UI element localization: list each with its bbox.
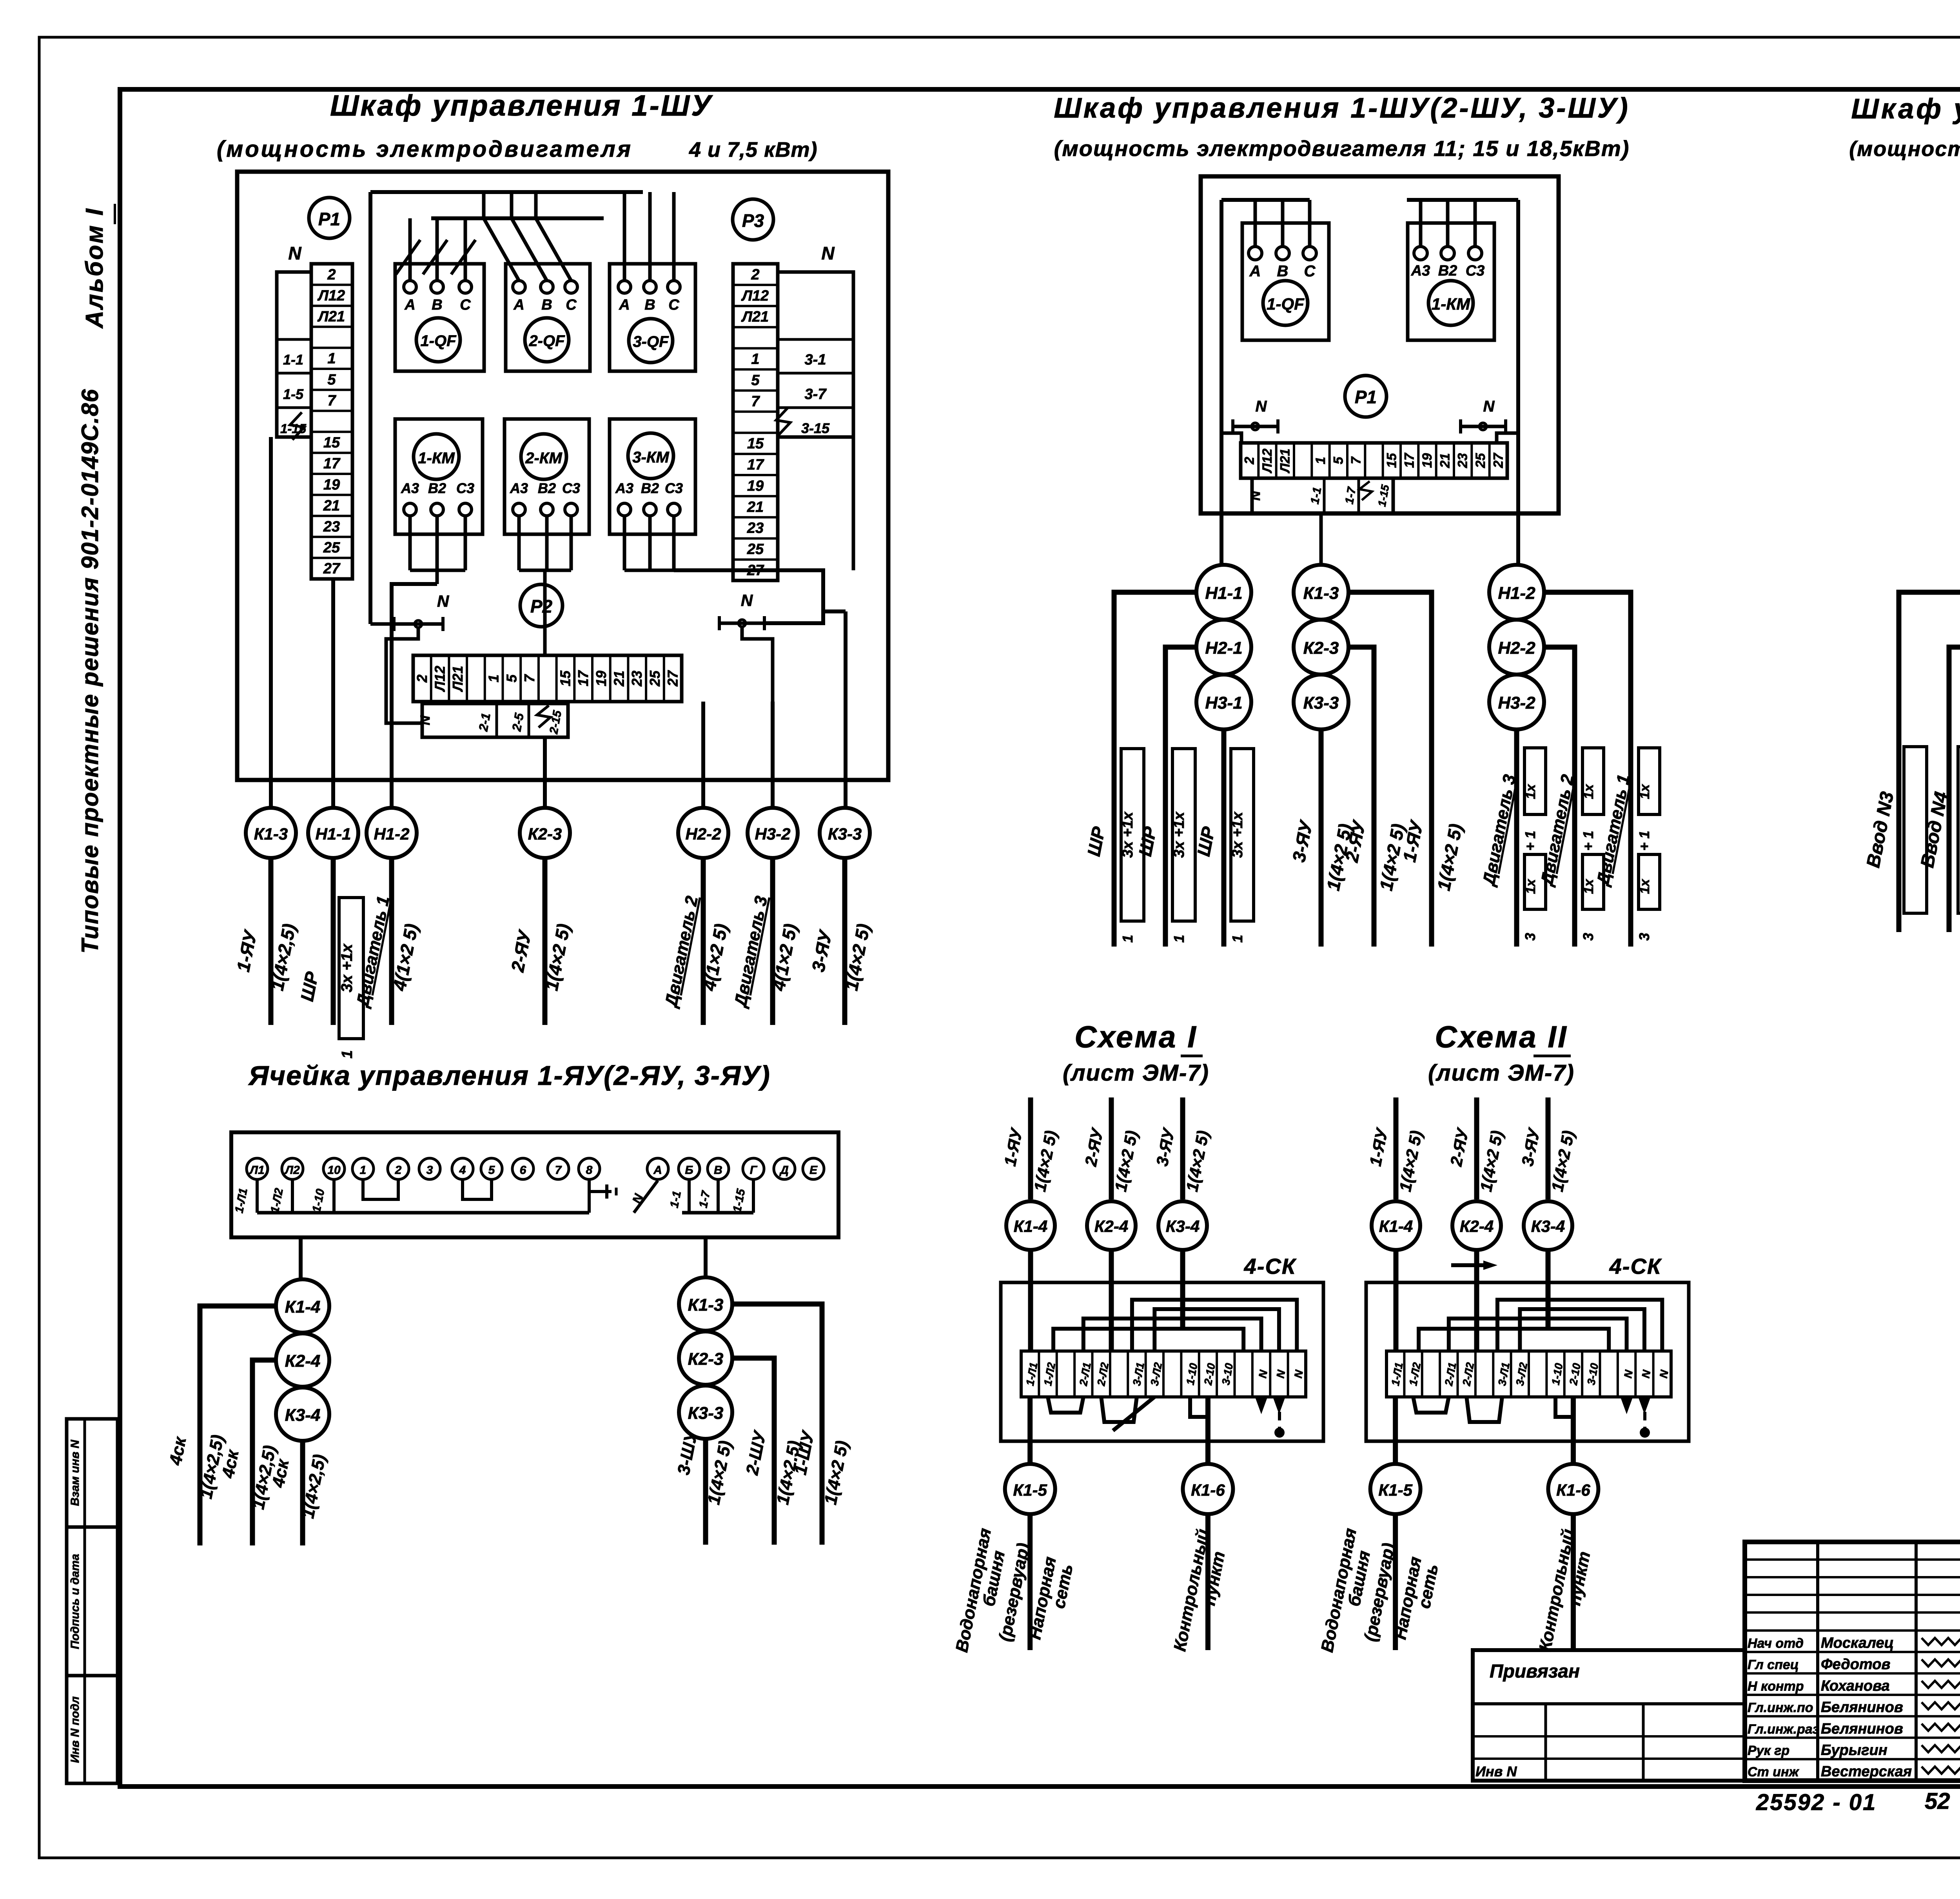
svg-text:Белянинов: Белянинов <box>1821 1721 1903 1737</box>
svg-text:2-КМ: 2-КМ <box>525 450 563 467</box>
cable К2-3 cell <box>679 1331 732 1385</box>
svg-text:Ст инж: Ст инж <box>1748 1765 1800 1779</box>
svg-text:А: А <box>513 297 524 313</box>
svg-text:2: 2 <box>751 267 759 283</box>
cable К1-6 <box>1548 1464 1598 1514</box>
cabinet 1-ШУ enclosure <box>237 172 888 780</box>
svg-text:Р2: Р2 <box>530 596 553 617</box>
chain wires section 2 right group <box>1544 592 1631 947</box>
svg-text:17: 17 <box>1402 452 1417 468</box>
outgoing tails <box>1027 1514 1033 1650</box>
incoming wires <box>1028 1097 1033 1199</box>
cable tails of cabinet 1 <box>269 858 274 1025</box>
svg-text:К1-3: К1-3 <box>688 1295 724 1315</box>
svg-text:1: 1 <box>327 350 336 367</box>
svg-text:К3-3: К3-3 <box>1303 693 1339 713</box>
svg-text:В2: В2 <box>641 480 659 496</box>
svg-text:4-СК: 4-СК <box>1609 1254 1662 1279</box>
contactor 1-КМ box <box>395 419 483 534</box>
terminal Е <box>803 1158 824 1179</box>
svg-text:Н3-2: Н3-2 <box>1498 693 1535 713</box>
svg-text:27: 27 <box>665 670 681 687</box>
cable К1-3 cell <box>679 1277 732 1331</box>
svg-text:1х: 1х <box>1523 784 1538 799</box>
svg-text:3х +1х: 3х +1х <box>1171 811 1187 858</box>
svg-text:Гл.инж.раз: Гл.инж.раз <box>1748 1722 1819 1737</box>
svg-text:Ячейка управления 1-ЯУ(2-ЯУ,: Ячейка управления 1-ЯУ(2-ЯУ, 3-ЯУ) <box>248 1060 770 1091</box>
sub terminal box N 1-1 1-7 1-15 <box>1252 478 1393 513</box>
svg-text:Н2-2: Н2-2 <box>685 825 721 843</box>
svg-text:5: 5 <box>327 372 336 388</box>
svg-text:21: 21 <box>611 671 627 687</box>
svg-text:В: В <box>1277 263 1289 280</box>
arrow mark <box>1451 1263 1483 1267</box>
svg-text:К3-4: К3-4 <box>1166 1217 1200 1235</box>
svg-text:(лист ЭМ-7): (лист ЭМ-7) <box>1428 1060 1575 1086</box>
links under strip <box>1413 1397 1449 1413</box>
svg-text:4-СК: 4-СК <box>1244 1254 1297 1279</box>
junction box 4-СК <box>1001 1282 1323 1441</box>
wire from К2-4 into nest <box>1109 1250 1114 1351</box>
title block columns left <box>1816 1542 1819 1781</box>
svg-text:Типовые проектные решения 9: Типовые проектные решения 901-2-0149С.86 <box>77 388 103 954</box>
wire from К3-4 into nest <box>1546 1250 1551 1329</box>
terminal strip of 4-СК <box>1387 1351 1671 1397</box>
svg-text:Схема I: Схема I <box>1074 1019 1198 1054</box>
cabinet 1 exit wires <box>269 437 273 808</box>
svg-text:Схема II: Схема II <box>1435 1019 1568 1054</box>
cable К1-3 <box>246 808 296 858</box>
svg-text:17: 17 <box>323 455 341 472</box>
svg-text:1: 1 <box>1171 935 1187 943</box>
svg-text:N: N <box>288 243 301 263</box>
incoming bus wires <box>1220 200 1223 565</box>
svg-text:Шкаф управления 1-ШУ(2-ШУ, 3-Ш: Шкаф управления 1-ШУ(2-ШУ, 3-ШУ) <box>1054 93 1630 124</box>
svg-text:Н3-1: Н3-1 <box>1205 693 1242 713</box>
svg-text:Л12: Л12 <box>317 287 345 304</box>
svg-text:3-КМ: 3-КМ <box>632 449 670 466</box>
svg-text:3-15: 3-15 <box>801 420 830 436</box>
svg-text:3-QF: 3-QF <box>633 333 669 350</box>
title block outer <box>1745 1542 1960 1781</box>
svg-text:К2-3: К2-3 <box>688 1349 724 1369</box>
wire from К2-4 into nest <box>1474 1250 1479 1351</box>
terminal А <box>647 1158 668 1179</box>
relay Р1 <box>1345 375 1387 417</box>
left terminal strip of cabinet 1 <box>311 264 352 579</box>
cable Н3-2 <box>748 808 798 858</box>
svg-text:1-QF: 1-QF <box>1267 295 1305 314</box>
svg-text:15: 15 <box>747 435 764 452</box>
cable Н2-2 <box>678 808 728 858</box>
cable К1-4 <box>1006 1201 1055 1250</box>
svg-text:Л21: Л21 <box>741 309 769 325</box>
terminal В <box>708 1158 729 1179</box>
svg-text:Н контр: Н контр <box>1748 1679 1804 1694</box>
arrow terminals N <box>1621 1397 1633 1414</box>
cell enclosure <box>231 1132 838 1237</box>
svg-text:1: 1 <box>1120 935 1136 943</box>
terminal Д <box>774 1158 795 1179</box>
svg-text:Н2-2: Н2-2 <box>1498 638 1535 658</box>
svg-text:К1-5: К1-5 <box>1013 1481 1047 1499</box>
svg-text:Р1: Р1 <box>318 209 340 229</box>
squiggle demount mark on 2-15 <box>537 706 550 727</box>
svg-text:Л1: Л1 <box>249 1164 264 1177</box>
terminal 7 <box>548 1158 569 1179</box>
wire from К3-4 into nest <box>1180 1250 1185 1329</box>
terminal 5 <box>481 1158 502 1179</box>
svg-text:3: 3 <box>426 1164 433 1177</box>
svg-text:Р1: Р1 <box>1355 387 1377 407</box>
svg-text:3-1: 3-1 <box>805 352 826 368</box>
cable К2-4 <box>276 1333 329 1387</box>
chain wires section 3 left group <box>1899 592 1960 932</box>
wire to К1-6 <box>1205 1397 1210 1465</box>
svg-text:15: 15 <box>323 435 340 451</box>
svg-text:Привязан: Привязан <box>1490 1661 1580 1682</box>
squiggle demount mark left <box>290 412 304 440</box>
left extension Привязан <box>1473 1650 1745 1781</box>
svg-text:Шкаф управления 1-ШУ: Шкаф управления 1-ШУ <box>330 89 713 122</box>
svg-text:1: 1 <box>486 675 502 682</box>
svg-text:А3: А3 <box>510 480 528 496</box>
svg-text:10: 10 <box>327 1164 341 1177</box>
svg-text:Белянинов: Белянинов <box>1821 1699 1903 1716</box>
svg-text:23: 23 <box>747 520 764 537</box>
cable К2-4 <box>1452 1201 1501 1250</box>
cable К3-3 cell <box>679 1386 732 1439</box>
wire from К1-4 into strip <box>1394 1250 1399 1351</box>
svg-text:2-QF: 2-QF <box>528 332 565 350</box>
cable Н1-2 <box>1489 565 1544 620</box>
svg-text:1-КМ: 1-КМ <box>1432 295 1470 313</box>
cable К3-4 <box>1524 1201 1572 1250</box>
cable marker boxes Ввод <box>1904 747 1927 913</box>
svg-text:К1-4: К1-4 <box>1379 1217 1413 1235</box>
svg-text:Л21: Л21 <box>317 308 345 325</box>
svg-text:N: N <box>437 592 450 610</box>
chain wires section 2 left group <box>1114 592 1196 947</box>
svg-text:N: N <box>1248 490 1263 501</box>
svg-text:21: 21 <box>747 499 764 515</box>
svg-text:Альбом I: Альбом I <box>81 207 108 329</box>
svg-text:С3: С3 <box>562 480 580 496</box>
svg-text:С: С <box>1304 263 1316 280</box>
svg-text:Н1-1: Н1-1 <box>315 825 351 843</box>
svg-text:N: N <box>741 591 753 609</box>
cable Н1-1 <box>1196 565 1251 620</box>
svg-text:5: 5 <box>488 1164 495 1177</box>
terminal Л1 <box>247 1158 268 1179</box>
svg-text:+ 1: + 1 <box>1636 831 1652 851</box>
svg-text:52: 52 <box>1925 1788 1950 1814</box>
relay P2 <box>520 584 563 627</box>
exit wire middle <box>1319 513 1323 565</box>
wire nest above strip <box>1497 1300 1662 1351</box>
svg-text:А3: А3 <box>401 480 419 496</box>
svg-text:С3: С3 <box>456 480 474 496</box>
svg-text:1-1: 1-1 <box>283 352 303 368</box>
arrow terminals N <box>1255 1397 1268 1414</box>
svg-text:(мощность электродвигателя 22,: (мощность электродвигателя 22,30,37;45и7… <box>1849 137 1960 161</box>
svg-text:7: 7 <box>327 392 336 409</box>
svg-text:1х: 1х <box>1637 878 1652 894</box>
svg-text:Рук гр: Рук гр <box>1748 1743 1789 1758</box>
wire to К1-5 <box>1393 1397 1398 1465</box>
breaker 1-QF box <box>1242 223 1329 340</box>
svg-text:25: 25 <box>647 670 663 687</box>
svg-text:К2-4: К2-4 <box>1094 1217 1129 1235</box>
cable К2-3 <box>520 808 570 858</box>
terminal 8 <box>579 1158 600 1179</box>
svg-text:3: 3 <box>1580 933 1596 941</box>
terminal 6 <box>512 1158 534 1179</box>
svg-text:Взам инв N: Взам инв N <box>69 1439 82 1506</box>
svg-text:6: 6 <box>520 1164 526 1177</box>
svg-text:Москалец: Москалец <box>1821 1635 1894 1651</box>
svg-text:Гл.инж.по: Гл.инж.по <box>1748 1700 1813 1715</box>
svg-text:(лист ЭМ-7): (лист ЭМ-7) <box>1063 1060 1209 1086</box>
junction box 4-СК <box>1366 1282 1689 1441</box>
cable К1-5 <box>1370 1464 1421 1514</box>
svg-text:19: 19 <box>747 478 764 494</box>
svg-text:19: 19 <box>593 671 609 686</box>
svg-text:Л12: Л12 <box>432 666 448 693</box>
right terminal strip of cabinet 1 <box>733 264 778 580</box>
svg-text:Нач отд: Нач отд <box>1748 1636 1804 1651</box>
svg-text:А: А <box>404 297 415 313</box>
svg-text:В2: В2 <box>1438 263 1457 279</box>
svg-text:23: 23 <box>629 671 645 687</box>
svg-text:4 и 7,5 кВт): 4 и 7,5 кВт) <box>689 138 817 161</box>
svg-text:К3-4: К3-4 <box>285 1406 321 1425</box>
N diagonal at А <box>634 1181 658 1213</box>
svg-text:8: 8 <box>586 1164 593 1177</box>
terminal strip of 4-СК <box>1021 1351 1306 1397</box>
squiggle demount mark right <box>776 408 790 435</box>
contactor 3-КМ box <box>610 419 695 534</box>
svg-text:С: С <box>668 297 679 313</box>
svg-text:Л2: Л2 <box>284 1164 300 1177</box>
wire diagonal slashes 1-QF <box>396 240 420 274</box>
terminal 4 <box>452 1158 473 1179</box>
svg-text:Гл спец: Гл спец <box>1748 1658 1799 1672</box>
svg-text:В2: В2 <box>538 480 556 496</box>
svg-text:К1-4: К1-4 <box>285 1297 321 1317</box>
contactor 2-КМ box <box>505 419 589 534</box>
svg-text:К2-3: К2-3 <box>528 825 562 843</box>
svg-text:Н1-1: Н1-1 <box>1205 584 1242 603</box>
svg-text:К1-6: К1-6 <box>1556 1481 1590 1499</box>
svg-text:3х +1х: 3х +1х <box>338 943 356 992</box>
svg-text:К1-6: К1-6 <box>1191 1481 1225 1499</box>
svg-text:А: А <box>619 297 630 313</box>
svg-text:3х +1х: 3х +1х <box>1229 811 1246 858</box>
svg-text:К3-3: К3-3 <box>828 825 862 843</box>
svg-text:25592 - 01: 25592 - 01 <box>1756 1790 1877 1815</box>
svg-text:К3-4: К3-4 <box>1531 1217 1565 1235</box>
svg-text:Д: Д <box>779 1164 789 1177</box>
cable К1-3 <box>1294 565 1348 620</box>
svg-text:К3-3: К3-3 <box>688 1404 724 1423</box>
svg-text:Коханова: Коханова <box>1821 1678 1890 1694</box>
breaker 3-QF box <box>610 264 695 371</box>
svg-text:Л12: Л12 <box>741 288 769 304</box>
svg-text:19: 19 <box>323 477 340 493</box>
svg-text:(мощность электродвигателя 11;: (мощность электродвигателя 11; 15 и 18,5… <box>1054 136 1630 161</box>
svg-text:К1-4: К1-4 <box>1014 1217 1048 1235</box>
svg-text:1: 1 <box>1313 457 1328 464</box>
svg-text:В2: В2 <box>428 480 446 496</box>
chain wires section 2 middle group <box>1348 592 1432 947</box>
cell chain wires left <box>200 1306 276 1545</box>
svg-text:7: 7 <box>751 393 760 410</box>
svg-text:В: В <box>714 1164 722 1177</box>
svg-text:К2-4: К2-4 <box>1460 1217 1494 1235</box>
cable Н3-2 <box>1489 675 1544 729</box>
svg-text:4: 4 <box>459 1164 466 1177</box>
incoming wires <box>1394 1097 1399 1199</box>
svg-text:3: 3 <box>1522 933 1538 941</box>
links under strip <box>1048 1397 1083 1413</box>
svg-text:Инв N подл: Инв N подл <box>69 1696 82 1763</box>
svg-text:2: 2 <box>395 1164 402 1177</box>
wires from contactors down <box>408 516 412 570</box>
cable Н1-2 <box>367 808 417 858</box>
svg-text:+ 1: + 1 <box>1580 831 1596 851</box>
svg-text:Б: Б <box>685 1164 693 1177</box>
terminal 3 <box>419 1158 440 1179</box>
svg-text:25: 25 <box>323 540 340 556</box>
svg-text:1-КМ: 1-КМ <box>418 450 455 467</box>
svg-text:15: 15 <box>1384 453 1399 468</box>
svg-text:23: 23 <box>323 519 340 535</box>
signature squiggles <box>1922 1638 1960 1645</box>
cable К2-3 <box>1294 620 1348 675</box>
cable Н2-2 <box>1489 620 1544 675</box>
cable К3-3 <box>820 808 870 858</box>
svg-text:Федотов: Федотов <box>1821 1656 1890 1673</box>
svg-text:Бурыгин: Бурыгин <box>1821 1742 1887 1759</box>
cable К3-4 <box>276 1388 329 1441</box>
svg-text:К2-4: К2-4 <box>285 1351 321 1371</box>
svg-text:А3: А3 <box>615 480 633 496</box>
svg-text:1: 1 <box>751 351 759 368</box>
svg-text:N: N <box>418 715 433 725</box>
terminal links in cell <box>256 1179 259 1213</box>
svg-text:Н1-2: Н1-2 <box>1498 584 1535 603</box>
cabinet enclosure 1-ШУ middle <box>1201 176 1559 513</box>
node dot <box>1274 1427 1285 1438</box>
svg-text:7: 7 <box>521 674 537 682</box>
svg-text:А: А <box>653 1164 662 1177</box>
svg-text:Инв N: Инв N <box>1475 1763 1517 1779</box>
cable К1-4 <box>1372 1201 1420 1250</box>
svg-text:С3: С3 <box>665 480 683 496</box>
svg-text:2: 2 <box>327 267 336 283</box>
svg-text:Подпись и дата: Подпись и дата <box>69 1554 82 1649</box>
svg-text:Н2-1: Н2-1 <box>1205 638 1242 658</box>
svg-text:25: 25 <box>747 541 764 558</box>
svg-text:27: 27 <box>323 560 341 577</box>
wire from cell to К1-3 <box>704 1237 708 1277</box>
svg-text:Н1-2: Н1-2 <box>374 825 409 843</box>
sub terminal box with 2-1 2-5 2-15 <box>422 704 568 737</box>
svg-text:7: 7 <box>555 1164 562 1177</box>
svg-text:1: 1 <box>360 1164 367 1177</box>
earth tick after 8 <box>589 1190 612 1193</box>
wire from right bracket down <box>852 437 855 570</box>
svg-text:К1-3: К1-3 <box>1303 584 1339 603</box>
svg-text:Л12: Л12 <box>1260 448 1275 473</box>
svg-text:Г: Г <box>750 1164 758 1177</box>
svg-text:1-5: 1-5 <box>283 386 304 402</box>
svg-text:1: 1 <box>339 1050 356 1058</box>
svg-text:Е: Е <box>809 1164 818 1177</box>
terminal strip X1 (horizontal) <box>1241 443 1507 478</box>
svg-text:А: А <box>1249 263 1261 280</box>
svg-text:7: 7 <box>1349 456 1364 464</box>
terminal Л2 <box>282 1158 303 1179</box>
svg-text:+ 1: + 1 <box>1522 831 1538 851</box>
svg-text:В: В <box>541 297 552 313</box>
title block upper rows <box>1745 1558 1960 1561</box>
svg-text:23: 23 <box>1455 453 1470 468</box>
outgoing tails <box>1393 1514 1398 1650</box>
svg-text:1х: 1х <box>1523 878 1538 894</box>
wire from К1-4 into strip <box>1028 1250 1033 1351</box>
terminal Г <box>743 1158 764 1179</box>
cable К1-6 <box>1183 1464 1233 1514</box>
terminal strip X2 of cabinet 1 (horizontal) <box>413 655 682 702</box>
svg-text:15: 15 <box>557 670 573 686</box>
cable К1-5 <box>1005 1464 1055 1514</box>
breaker 2-QF box <box>506 264 590 371</box>
wire nest above strip <box>1132 1300 1297 1351</box>
svg-text:1х: 1х <box>1581 784 1596 799</box>
svg-text:N: N <box>1483 398 1495 415</box>
svg-text:1: 1 <box>1229 935 1245 943</box>
svg-text:В: В <box>432 297 442 313</box>
svg-text:17: 17 <box>747 457 764 473</box>
svg-text:N: N <box>1256 398 1267 415</box>
svg-text:21: 21 <box>323 497 340 514</box>
svg-text:Шкаф управления 1-ШУ(2-ШУ,3-ШУ: Шкаф управления 1-ШУ(2-ШУ,3-ШУ) <box>1851 93 1960 125</box>
svg-text:К1-5: К1-5 <box>1378 1481 1412 1499</box>
wire from cell to К1-4 <box>299 1237 303 1279</box>
svg-text:21: 21 <box>1437 453 1452 468</box>
svg-text:(мощность электродвигателя: (мощность электродвигателя <box>217 136 633 162</box>
wires to 3-QF <box>623 192 626 281</box>
cable К2-4 <box>1087 1201 1136 1250</box>
cable К3-4 <box>1158 1201 1207 1250</box>
svg-text:К2-3: К2-3 <box>1303 638 1339 658</box>
cable Н1-1 <box>308 808 358 858</box>
svg-text:Вестерская: Вестерская <box>1821 1763 1912 1780</box>
svg-text:С3: С3 <box>1466 263 1485 279</box>
wire to К1-5 <box>1027 1397 1033 1465</box>
svg-text:Л21: Л21 <box>450 666 466 693</box>
cell chain wires right <box>732 1304 822 1545</box>
cable К1-4 <box>276 1279 329 1333</box>
incoming wires bus of cabinet 1 <box>368 192 372 624</box>
svg-text:С: С <box>566 297 577 313</box>
title block signature rows <box>1745 1629 1960 1632</box>
svg-text:5: 5 <box>1331 456 1346 464</box>
svg-text:5: 5 <box>503 674 519 682</box>
terminal 1 <box>352 1158 374 1179</box>
